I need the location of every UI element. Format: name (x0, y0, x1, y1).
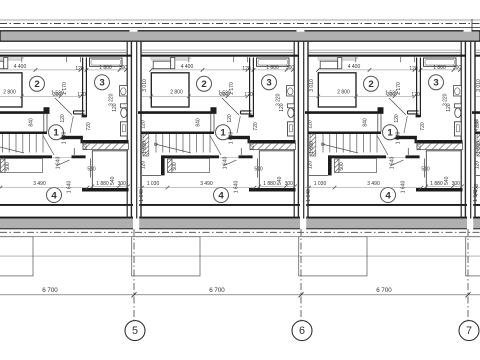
svg-text:6: 6 (299, 325, 305, 337)
grid bubble 5 (125, 321, 145, 341)
unit 2 (130, 30, 300, 321)
bottom wall outer edge (0, 217, 480, 219)
bottom dimension line (0, 294, 480, 296)
top eave line (0, 27, 480, 29)
unit 3 (297, 30, 467, 321)
unit 4 (partial right) (464, 30, 480, 321)
bottom band edge (0, 228, 480, 229)
svg-text:5: 5 (132, 325, 138, 337)
bottom wall inner edge (0, 204, 480, 206)
top right end tick (471, 19, 473, 31)
svg-text:4 470: 4 470 (474, 184, 480, 197)
svg-text:7: 7 (466, 325, 472, 337)
grid bubble 6 (292, 321, 312, 341)
svg-text:4 400: 4 400 (474, 119, 480, 132)
grid bubble 7 (459, 321, 479, 341)
terrace top line (0, 236, 480, 238)
top centerline dash-dot (0, 23, 480, 25)
unit 1 (partial left) (0, 30, 132, 321)
terrace mid line (0, 255, 480, 257)
top boundary line (0, 19, 480, 21)
bottom wall band (0, 219, 480, 229)
top wall band (0, 31, 480, 41)
bottom centerline dash-dot (0, 231, 480, 233)
